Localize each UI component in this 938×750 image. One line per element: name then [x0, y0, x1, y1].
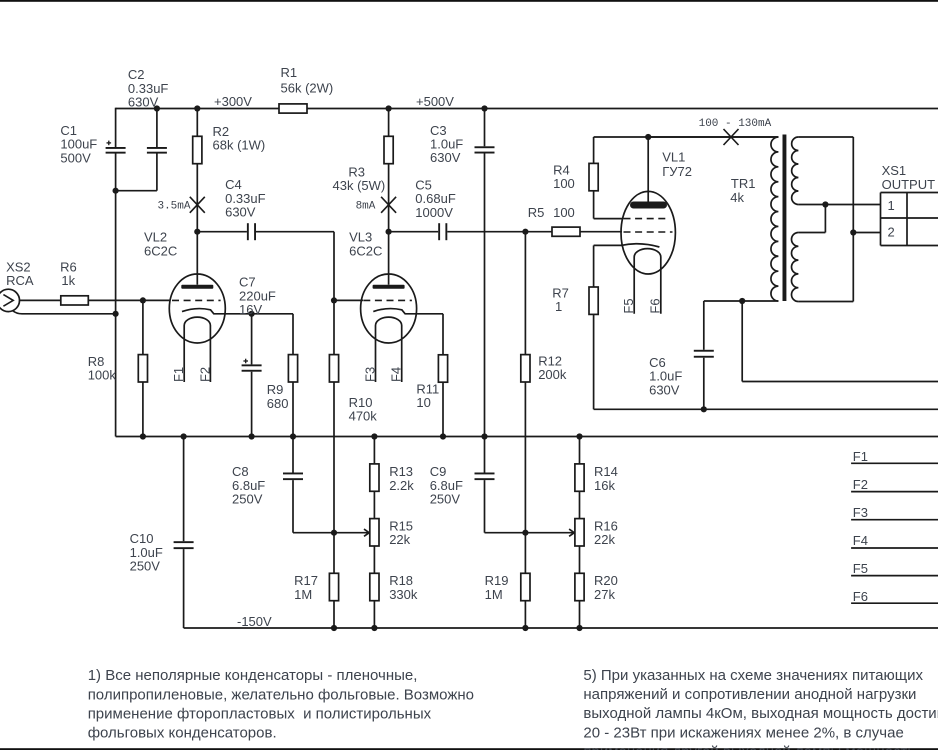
- svg-text:330k: 330k: [389, 587, 418, 602]
- wire C5 to R5: [447, 231, 552, 233]
- resistor R10: [329, 355, 338, 382]
- resistor R8: [138, 355, 147, 382]
- svg-text:ГУ72: ГУ72: [662, 164, 692, 179]
- svg-text:250V: 250V: [430, 492, 461, 507]
- wire R14 top lead: [579, 437, 581, 464]
- terminal F1 line: [851, 462, 938, 464]
- wire -150V rail: [184, 627, 938, 629]
- capacitor C5: [438, 223, 440, 240]
- tube VL2 heater: [184, 317, 210, 382]
- wire R18 bottom lead: [373, 601, 375, 628]
- wire VL3 cathode corner down: [442, 314, 444, 355]
- wiper arrow into R16: [569, 529, 574, 536]
- terminal F3 line: [851, 519, 938, 521]
- tube VL2 cathode: [182, 309, 252, 314]
- wire R17 bottom lead: [333, 601, 335, 628]
- current marker 8mA X: [381, 197, 396, 213]
- svg-text:68k (1W): 68k (1W): [213, 138, 266, 153]
- wire C1-C2 bottom link: [116, 190, 157, 192]
- capacitor C1: [106, 147, 126, 149]
- tube VL1 control grid dashes: [624, 231, 673, 233]
- wire primary bottom lead: [704, 300, 779, 302]
- tube VL3 anode plate: [373, 285, 405, 289]
- node C7 bus junction: [249, 433, 255, 439]
- wire R11 bottom lead: [442, 382, 444, 436]
- wire C7 bottom lead: [251, 372, 253, 437]
- wire R13 top lead: [373, 437, 375, 464]
- capacitor C6: [694, 350, 714, 352]
- wire R10 to wiper line: [333, 382, 335, 533]
- node pin2 junction: [850, 229, 856, 235]
- wire cathode to R9 corner: [252, 313, 293, 315]
- wire pin2 lead: [853, 232, 880, 234]
- wire secondary bottom lead: [798, 301, 853, 303]
- tube VL3 envelope: [361, 274, 417, 343]
- resistor R18: [370, 573, 379, 600]
- node XS2 return junction: [113, 311, 119, 317]
- wire C10 bottom lead: [183, 549, 185, 628]
- wire R12 to wiper line: [524, 382, 526, 533]
- svg-text:1M: 1M: [485, 587, 503, 602]
- resistor R11: [438, 355, 447, 382]
- svg-text:F5: F5: [621, 298, 636, 313]
- svg-text:F3: F3: [853, 505, 868, 520]
- node primary bottom junction: [739, 298, 745, 304]
- wire ground bus: [116, 436, 938, 438]
- resistor R20: [575, 573, 584, 600]
- wire feedback horizontal to right edge: [742, 381, 938, 383]
- svg-text:3.5mA: 3.5mA: [157, 201, 190, 213]
- resistor R5: [552, 227, 580, 236]
- tube VL2 grid dashes: [172, 299, 221, 301]
- svg-text:1k: 1k: [61, 273, 75, 288]
- capacitor C7: [242, 364, 262, 366]
- wire R2 bottom lead to VL2 anode: [196, 164, 198, 232]
- wire +300/+500V top rail: [116, 108, 279, 110]
- current marker 100-130mA X: [724, 129, 739, 145]
- svg-text:10: 10: [416, 395, 430, 410]
- potentiometer R16: [575, 519, 584, 546]
- node R12/R19 wiper junction: [522, 530, 528, 536]
- wire feedback vertical: [741, 301, 743, 382]
- svg-text:16k: 16k: [594, 478, 615, 493]
- tube VL3 cathode: [373, 309, 443, 314]
- svg-text:F6: F6: [647, 298, 662, 313]
- node C3/C9 bus junction: [481, 433, 487, 439]
- tube VL1 anode plate: [630, 202, 667, 209]
- wire C6 bottom lead: [703, 358, 705, 410]
- capacitor C9: [475, 473, 495, 475]
- transformer TR1 secondary lower winding: [792, 233, 799, 302]
- wire secondary top lead: [798, 136, 853, 138]
- svg-text:R5: R5: [528, 205, 545, 220]
- svg-text:F5: F5: [853, 561, 868, 576]
- svg-text:8mA: 8mA: [356, 201, 376, 213]
- transformer TR1 primary winding: [771, 137, 778, 301]
- svg-text:OUTPUT: OUTPUT: [882, 177, 936, 192]
- resistor R4: [589, 163, 598, 190]
- node secondary tap junction: [822, 201, 828, 207]
- node C6 bottom junction: [701, 406, 707, 412]
- node R20 rail junction: [576, 625, 582, 631]
- tube VL3 heater: [376, 317, 402, 382]
- wire C1 top lead: [115, 108, 117, 148]
- wire R8 top lead: [142, 300, 144, 354]
- wire VL1 anode line: [594, 136, 779, 138]
- svg-text:470k: 470k: [349, 409, 378, 424]
- node R19 rail junction: [522, 625, 528, 631]
- node VL1 anode junction: [645, 134, 651, 140]
- svg-text:C2: C2: [128, 67, 145, 82]
- svg-text:F1: F1: [171, 367, 186, 382]
- capacitor C3: [475, 146, 495, 148]
- svg-text:F4: F4: [389, 367, 404, 382]
- resistor R17: [329, 573, 338, 600]
- wire R16-R20 link: [579, 546, 581, 573]
- svg-text:22k: 22k: [594, 532, 615, 547]
- node VL2 cathode junction: [249, 311, 255, 317]
- svg-text:F3: F3: [363, 367, 378, 382]
- svg-text:500V: 500V: [60, 150, 91, 165]
- svg-text:4k: 4k: [730, 190, 744, 205]
- svg-text:F2: F2: [853, 477, 868, 492]
- node R17 rail junction: [331, 625, 337, 631]
- wire R3 top lead: [388, 109, 390, 137]
- wiper arrow into R15: [364, 529, 369, 536]
- svg-text:1: 1: [555, 299, 562, 314]
- wire R14-R16 link: [579, 491, 581, 518]
- wire left vertical to ground bus: [115, 191, 117, 437]
- page bottom border: [0, 748, 938, 750]
- svg-text:2: 2: [888, 224, 895, 239]
- svg-text:0.33uF: 0.33uF: [128, 81, 169, 96]
- wire C6 top lead: [703, 301, 705, 350]
- terminal F4 line: [851, 547, 938, 549]
- svg-text:250V: 250V: [130, 559, 161, 574]
- capacitor C10: [174, 541, 194, 543]
- capacitor C2: [147, 147, 167, 149]
- wire secondary outer vertical: [852, 137, 854, 302]
- wire C9 wiper line: [485, 532, 575, 534]
- wire R15-R18 link: [373, 546, 375, 573]
- wire C2 top lead: [156, 109, 158, 148]
- capacitor C8: [283, 473, 303, 475]
- connector XS1 box: [881, 192, 938, 194]
- svg-text:1: 1: [888, 198, 895, 213]
- node R14 bus junction: [576, 433, 582, 439]
- tube VL2 anode plate: [181, 285, 213, 289]
- wire tap jog vertical: [824, 205, 826, 233]
- node R2 rail junction: [194, 105, 200, 111]
- svg-text:VL2: VL2: [144, 229, 167, 244]
- wire C3 top lead: [484, 109, 486, 147]
- wire VL1 cathode lead: [594, 244, 622, 246]
- svg-text:43k (5W): 43k (5W): [333, 178, 386, 193]
- svg-text:1000V: 1000V: [415, 205, 453, 220]
- svg-text:-150V: -150V: [237, 614, 272, 629]
- svg-text:XS2: XS2: [6, 259, 31, 274]
- svg-text:R1: R1: [281, 65, 298, 80]
- wire jog to lower winding: [798, 232, 825, 234]
- wire R8 bottom lead: [142, 382, 144, 437]
- wire C3 to bus vertical: [484, 154, 486, 437]
- wire C4 to corner: [256, 231, 334, 233]
- svg-text:6C2C: 6C2C: [144, 244, 177, 259]
- wire secondary tap to XS1 pin1: [798, 204, 880, 206]
- node R12 top junction: [522, 229, 528, 235]
- page top border: [0, 0, 938, 2]
- svg-text:100: 100: [553, 176, 575, 191]
- svg-text:56k (2W): 56k (2W): [281, 80, 334, 95]
- svg-text:100k: 100k: [88, 368, 117, 383]
- wire R17 top lead: [333, 533, 335, 574]
- resistor R6: [61, 296, 89, 305]
- svg-text:5) При указанных на схеме знач: 5) При указанных на схеме значениях пита…: [583, 667, 923, 684]
- transformer TR1 core: [783, 135, 787, 302]
- wire corner down to VL3 grid: [333, 232, 335, 301]
- wire R2 top lead: [196, 109, 198, 137]
- wire C8 top lead: [292, 437, 294, 473]
- svg-text:27k: 27k: [594, 587, 615, 602]
- svg-text:применения другой выходной лам: применения другой выходной лампы мощност…: [583, 743, 915, 750]
- connector XS2 RCA: [0, 289, 20, 311]
- node C1/C2 junction: [113, 188, 119, 194]
- node C2 rail junction: [154, 105, 160, 111]
- resistor R14: [575, 464, 584, 491]
- wire R4 to screen grid: [593, 191, 595, 219]
- node R18 rail junction: [371, 625, 377, 631]
- terminal F6 line: [851, 602, 938, 604]
- node VL3 grid junction: [331, 297, 337, 303]
- node VL3 anode junction: [386, 229, 392, 235]
- svg-text:фольговых конденсаторов.: фольговых конденсаторов.: [88, 725, 277, 742]
- tube VL3 grid dashes: [363, 299, 412, 301]
- wire VL2 anode lead: [196, 232, 198, 285]
- svg-text:630V: 630V: [430, 150, 461, 165]
- svg-text:2.2k: 2.2k: [389, 478, 414, 493]
- svg-text:1) Все неполярные конденсаторы: 1) Все неполярные конденсаторы - пленочн…: [88, 667, 418, 684]
- wire R3 bottom lead to VL3 anode: [388, 164, 390, 232]
- tube VL1 cathode: [621, 244, 659, 247]
- svg-text:+300V: +300V: [214, 94, 252, 109]
- wire R13-R15 link: [373, 491, 375, 518]
- svg-text:630V: 630V: [225, 205, 256, 220]
- wire C7 top lead: [251, 314, 253, 365]
- node C3 rail junction: [481, 105, 487, 111]
- wire primary top lead: [648, 136, 778, 138]
- wire grid into VL3: [334, 299, 363, 301]
- wire R10 top lead: [333, 300, 335, 354]
- svg-text:XS1: XS1: [882, 163, 907, 178]
- node R3 rail junction: [386, 105, 392, 111]
- svg-text:100: 100: [553, 205, 575, 220]
- wire C9 top lead: [484, 437, 486, 473]
- wire R7 bottom horizontal to right edge: [594, 408, 938, 410]
- wire R19 top lead: [524, 533, 526, 574]
- wire input line XS2 to VL2 grid: [20, 299, 61, 301]
- resistor R12: [521, 355, 530, 382]
- svg-text:200k: 200k: [538, 367, 567, 382]
- svg-text:выходной лампы 4кОм, выходная: выходной лампы 4кОм, выходная мощность д…: [583, 705, 938, 722]
- wire C1 bottom lead: [115, 153, 117, 191]
- resistor R13: [370, 464, 379, 491]
- svg-text:16V: 16V: [239, 302, 262, 317]
- capacitor C4: [247, 223, 249, 240]
- resistor R2: [193, 136, 202, 163]
- wire VL3 anode to C5: [389, 231, 439, 233]
- potentiometer R15: [370, 519, 379, 546]
- svg-text:полипропиленовые, желательно ф: полипропиленовые, желательно фольговые. …: [88, 686, 474, 703]
- svg-text:F6: F6: [853, 589, 868, 604]
- svg-text:применение фторопластовых и п: применение фторопластовых и полистирольн…: [88, 705, 432, 722]
- svg-text:F2: F2: [197, 367, 212, 382]
- node R11 bus junction: [440, 433, 446, 439]
- resistor R19: [521, 573, 530, 600]
- wire VL3 anode lead: [388, 232, 390, 285]
- wire C8 wiper line: [293, 532, 369, 534]
- svg-text:1M: 1M: [294, 587, 312, 602]
- svg-text:22k: 22k: [389, 532, 410, 547]
- transformer TR1 secondary upper winding: [792, 137, 799, 205]
- svg-text:VL3: VL3: [349, 229, 372, 244]
- svg-text:+500V: +500V: [416, 94, 454, 109]
- node R9 bus junction: [290, 433, 296, 439]
- wire C8 bottom lead: [292, 480, 294, 533]
- svg-text:F4: F4: [853, 533, 868, 548]
- wire R5 to VL1 grid: [580, 231, 622, 233]
- wire R7 bottom lead: [593, 314, 595, 409]
- svg-text:630V: 630V: [649, 382, 680, 397]
- tube VL1 heater: [634, 249, 661, 314]
- svg-text:RCA: RCA: [6, 273, 34, 288]
- resistor R9: [288, 355, 297, 382]
- terminal F5 line: [851, 575, 938, 577]
- wire C9 bottom lead: [484, 480, 486, 533]
- svg-text:630V: 630V: [128, 95, 159, 110]
- wire VL2 anode to C4: [197, 231, 247, 233]
- wire XS2 ground return: [13, 311, 116, 314]
- svg-text:100 - 130mA: 100 - 130mA: [699, 118, 772, 130]
- wire R9 bottom lead: [292, 382, 294, 437]
- resistor R3: [384, 136, 393, 163]
- svg-text:VL1: VL1: [662, 150, 685, 165]
- wire R20 bottom lead: [579, 601, 581, 628]
- wire C2 bottom lead: [156, 153, 158, 191]
- svg-text:C1: C1: [60, 123, 77, 138]
- wire VL1 anode lead: [647, 137, 649, 202]
- wire R19 bottom lead: [524, 601, 526, 628]
- tube VL1 envelope: [621, 191, 675, 274]
- svg-text:6C2C: 6C2C: [349, 244, 382, 259]
- tube VL2 envelope: [169, 274, 225, 343]
- wire C10 top lead: [183, 437, 185, 542]
- current marker 3.5mA X: [190, 197, 205, 213]
- node VL2 anode junction: [194, 229, 200, 235]
- wire R4 top lead: [593, 137, 595, 163]
- wire R12 top lead: [524, 232, 526, 355]
- node R8 bus junction: [140, 433, 146, 439]
- tube VL1 screen grid dashes: [624, 218, 670, 220]
- node R10/R17 wiper junction: [331, 530, 337, 536]
- svg-text:250V: 250V: [232, 492, 263, 507]
- resistor R1: [279, 104, 307, 113]
- node R8 grid junction: [140, 297, 146, 303]
- node R13 bus junction: [371, 433, 377, 439]
- terminal F2 line: [851, 491, 938, 493]
- svg-text:20 - 23Вт при искажениях менее: 20 - 23Вт при искажениях менее 2%, в слу…: [583, 724, 903, 741]
- svg-text:680: 680: [267, 396, 289, 411]
- svg-text:F1: F1: [853, 449, 868, 464]
- resistor R7: [589, 287, 598, 314]
- svg-text:R6: R6: [60, 259, 77, 274]
- svg-text:напряжений и сопротивлении ано: напряжений и сопротивлении анодной нагру…: [583, 686, 916, 703]
- node C10 bus junction: [181, 433, 187, 439]
